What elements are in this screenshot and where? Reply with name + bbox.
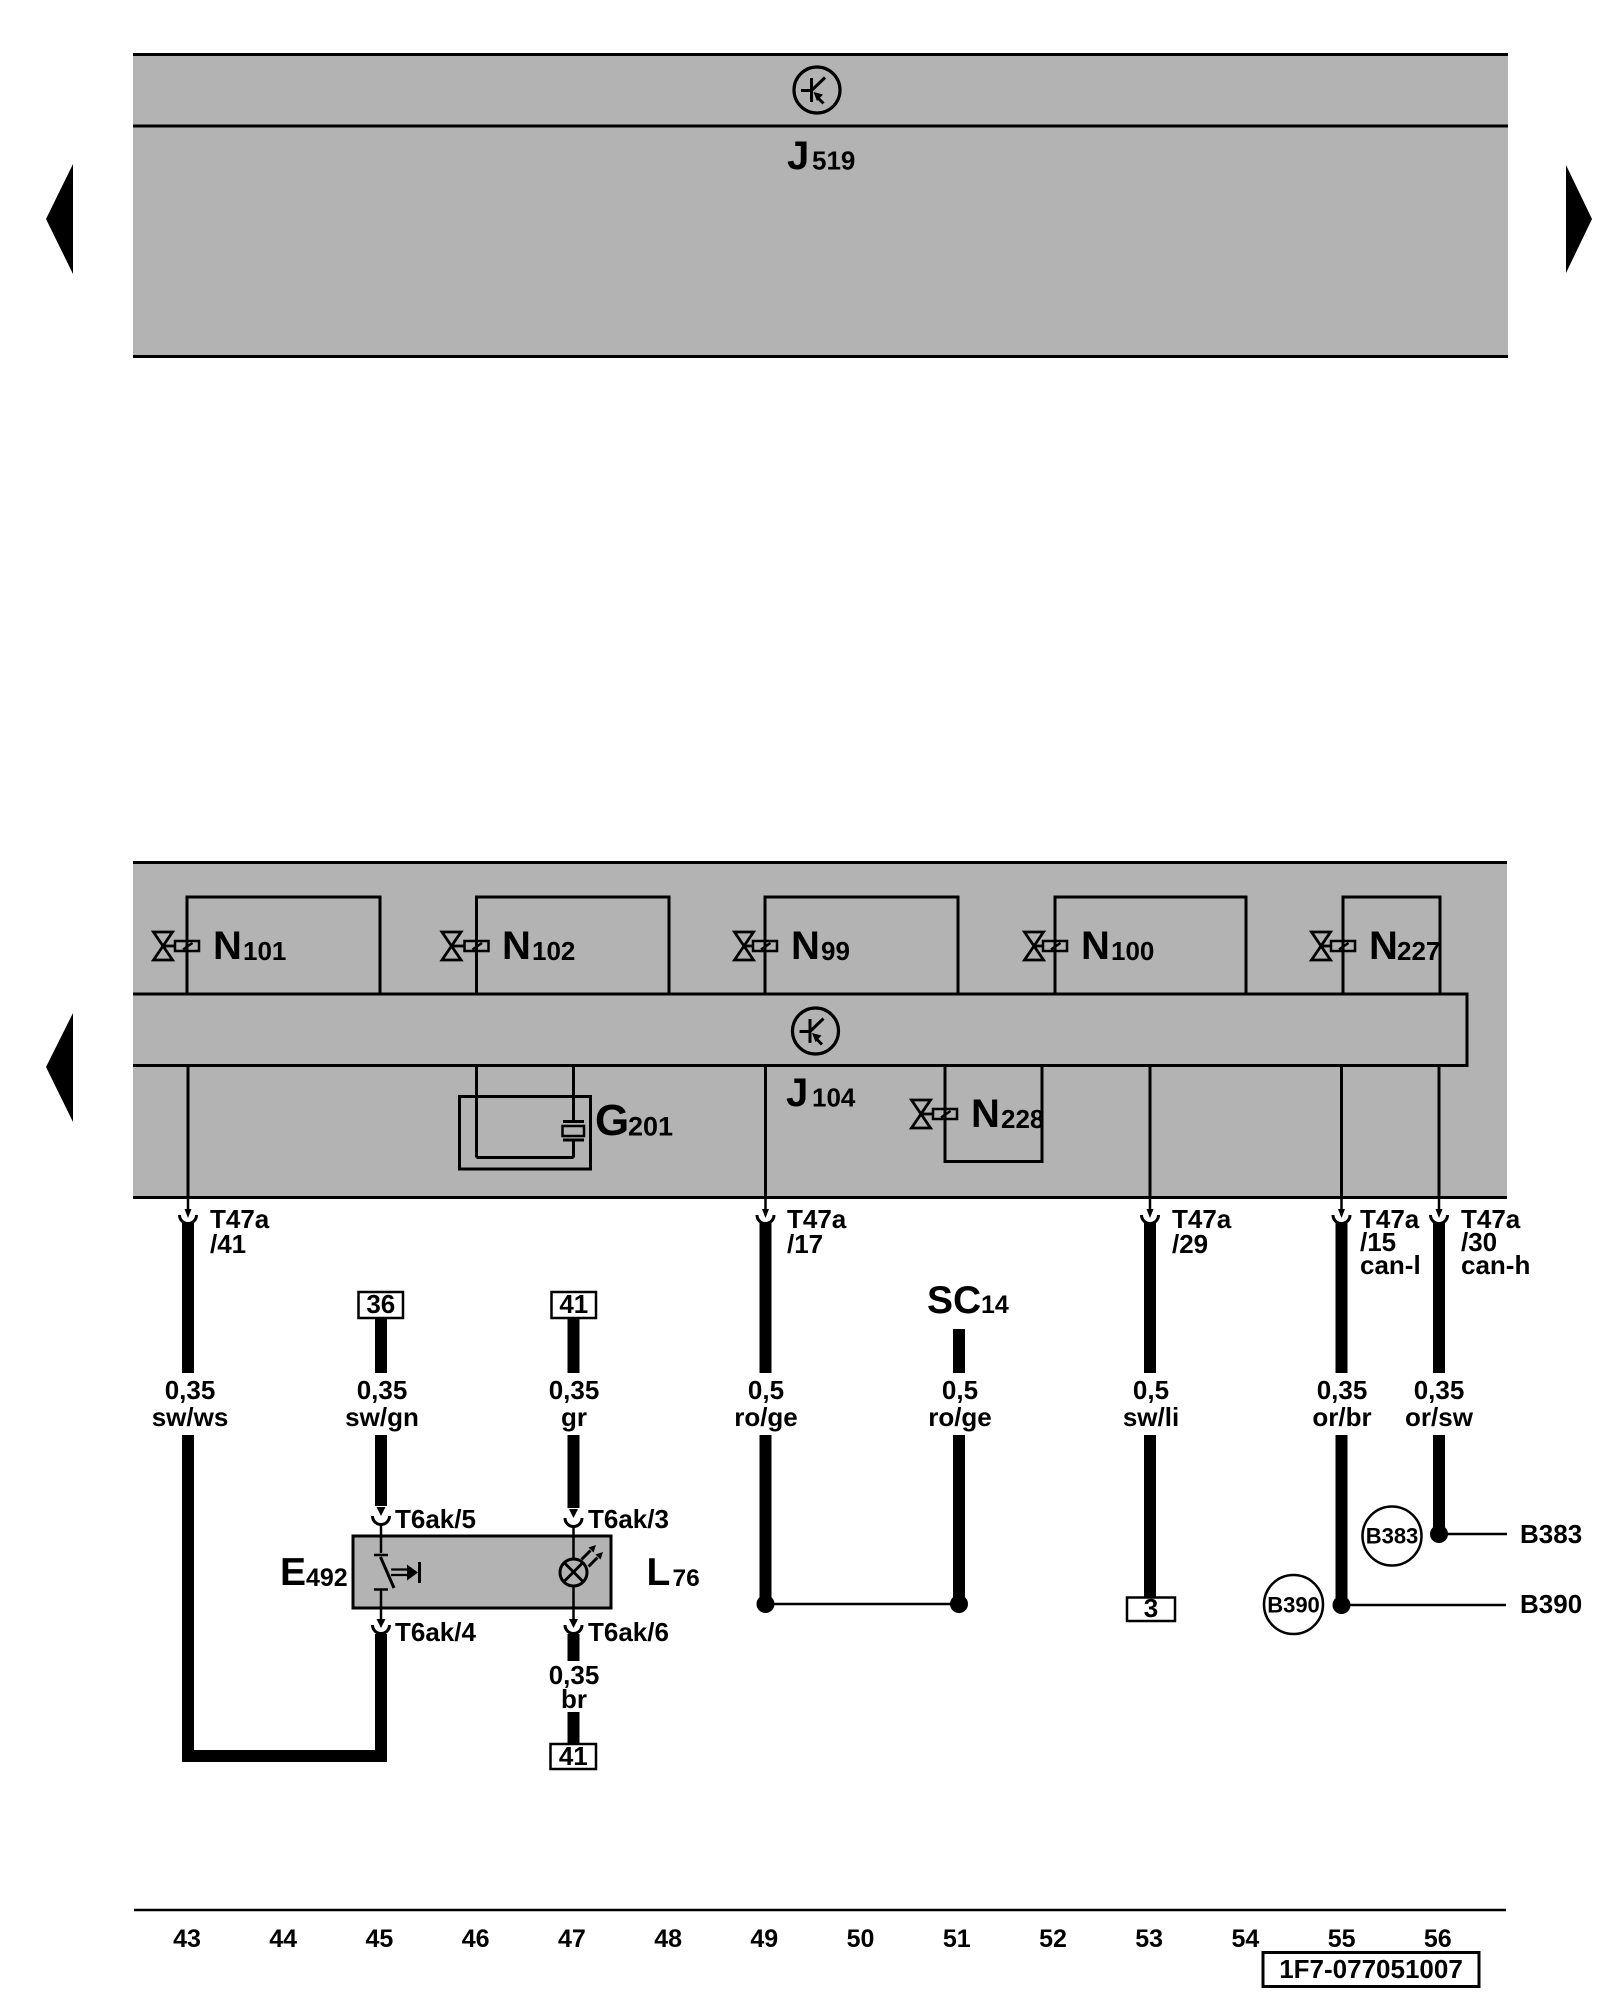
svg-text:T6ak/5: T6ak/5: [395, 1504, 476, 1534]
svg-text:or/br: or/br: [1312, 1402, 1371, 1432]
svg-text:227: 227: [1397, 936, 1440, 966]
svg-text:0,35: 0,35: [165, 1375, 216, 1405]
svg-text:J: J: [787, 134, 809, 178]
svg-text:76: 76: [673, 1565, 700, 1592]
svg-text:47: 47: [558, 1925, 586, 1953]
svg-text:201: 201: [628, 1112, 673, 1142]
svg-text:N: N: [1369, 924, 1398, 968]
svg-text:104: 104: [812, 1083, 856, 1113]
svg-text:B390: B390: [1520, 1589, 1582, 1619]
svg-text:N: N: [791, 924, 820, 968]
svg-text:0,35: 0,35: [1317, 1375, 1368, 1405]
svg-text:SC: SC: [927, 1279, 981, 1322]
svg-text:B390: B390: [1267, 1593, 1320, 1618]
svg-text:G: G: [595, 1096, 629, 1145]
svg-text:can-l: can-l: [1360, 1250, 1421, 1280]
svg-text:48: 48: [654, 1925, 682, 1953]
svg-text:sw/gn: sw/gn: [345, 1402, 419, 1432]
svg-text:T6ak/3: T6ak/3: [588, 1504, 669, 1534]
svg-text:T6ak/6: T6ak/6: [588, 1617, 669, 1647]
svg-text:55: 55: [1328, 1925, 1356, 1953]
svg-text:54: 54: [1231, 1925, 1259, 1953]
svg-text:br: br: [561, 1684, 587, 1714]
svg-text:N: N: [213, 924, 242, 968]
svg-text:41: 41: [559, 1741, 588, 1771]
svg-text:43: 43: [173, 1925, 201, 1953]
svg-text:gr: gr: [561, 1402, 587, 1432]
svg-text:N: N: [971, 1092, 1000, 1136]
svg-text:/29: /29: [1172, 1229, 1208, 1259]
svg-text:0,35: 0,35: [1414, 1375, 1465, 1405]
svg-text:102: 102: [532, 936, 575, 966]
svg-text:0,35: 0,35: [549, 1375, 600, 1405]
svg-text:0,5: 0,5: [1133, 1375, 1169, 1405]
svg-text:52: 52: [1039, 1925, 1067, 1953]
svg-text:ro/ge: ro/ge: [928, 1402, 992, 1432]
svg-text:49: 49: [750, 1925, 778, 1953]
svg-text:sw/ws: sw/ws: [152, 1402, 229, 1432]
svg-text:519: 519: [812, 146, 855, 176]
svg-text:N: N: [1081, 924, 1110, 968]
svg-text:0,5: 0,5: [748, 1375, 784, 1405]
svg-text:/41: /41: [210, 1229, 246, 1259]
svg-text:ro/ge: ro/ge: [734, 1402, 798, 1432]
svg-text:50: 50: [847, 1925, 875, 1953]
svg-text:N: N: [502, 924, 531, 968]
svg-text:B383: B383: [1366, 1524, 1419, 1549]
svg-text:B383: B383: [1520, 1519, 1582, 1549]
svg-text:0,5: 0,5: [942, 1375, 978, 1405]
svg-text:99: 99: [821, 936, 850, 966]
svg-text:101: 101: [243, 936, 286, 966]
svg-text:56: 56: [1424, 1925, 1452, 1953]
svg-text:or/sw: or/sw: [1405, 1402, 1474, 1432]
svg-text:/17: /17: [787, 1229, 823, 1259]
svg-text:45: 45: [365, 1925, 393, 1953]
svg-text:41: 41: [559, 1289, 588, 1319]
svg-text:44: 44: [269, 1925, 297, 1953]
svg-text:46: 46: [462, 1925, 490, 1953]
svg-text:E: E: [280, 1551, 306, 1594]
svg-text:can-h: can-h: [1461, 1250, 1530, 1280]
svg-text:sw/li: sw/li: [1123, 1402, 1179, 1432]
svg-text:3: 3: [1144, 1593, 1158, 1623]
svg-text:36: 36: [366, 1289, 395, 1319]
svg-text:0,35: 0,35: [357, 1375, 408, 1405]
svg-text:100: 100: [1111, 936, 1154, 966]
svg-text:T6ak/4: T6ak/4: [395, 1617, 476, 1647]
svg-text:51: 51: [943, 1925, 971, 1953]
svg-text:L: L: [647, 1551, 671, 1594]
svg-text:14: 14: [981, 1291, 1009, 1319]
svg-text:1F7-077051007: 1F7-077051007: [1279, 1954, 1463, 1984]
svg-text:J: J: [786, 1071, 808, 1115]
svg-text:53: 53: [1135, 1925, 1163, 1953]
svg-text:492: 492: [306, 1564, 348, 1592]
svg-text:228: 228: [1001, 1104, 1044, 1134]
